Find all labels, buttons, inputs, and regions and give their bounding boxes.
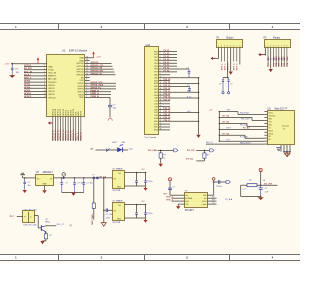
svg-text:GPIO14_MO: GPIO14_MO bbox=[91, 69, 104, 72]
svg-text:P16_IO: P16_IO bbox=[164, 97, 171, 99]
svg-text:SDIO_2: SDIO_2 bbox=[24, 78, 32, 80]
svg-text:1: 1 bbox=[218, 45, 219, 47]
svg-text:KEY_6: KEY_6 bbox=[237, 63, 239, 70]
svg-text:C?: C? bbox=[212, 202, 214, 204]
svg-text:16: 16 bbox=[160, 94, 162, 96]
svg-text:DY_Da: DY_Da bbox=[186, 159, 194, 161]
svg-text:R?_A.A: R?_A.A bbox=[225, 198, 233, 201]
svg-text:12: 12 bbox=[86, 68, 88, 70]
svg-text:P23_IO: P23_IO bbox=[164, 117, 171, 119]
svg-text:A?: A? bbox=[212, 196, 214, 199]
svg-text:15: 15 bbox=[160, 91, 162, 93]
svg-text:U? 78M05: U? 78M05 bbox=[113, 201, 124, 203]
svg-text:8: 8 bbox=[44, 84, 45, 86]
svg-text:5: 5 bbox=[276, 45, 277, 47]
svg-text:11: 11 bbox=[44, 93, 46, 95]
svg-text:GPIO12: GPIO12 bbox=[76, 69, 84, 71]
svg-text:20: 20 bbox=[160, 105, 162, 107]
svg-text:+5V?: +5V? bbox=[106, 217, 110, 219]
svg-text:RxTx4: RxTx4 bbox=[268, 133, 273, 135]
svg-text:GPIO4: GPIO4 bbox=[24, 86, 31, 89]
svg-text:7: 7 bbox=[236, 45, 237, 47]
svg-text:6: 6 bbox=[86, 85, 87, 87]
svg-text:SCL_P?: SCL_P? bbox=[57, 224, 66, 226]
svg-text:GPIO5_SCL: GPIO5_SCL bbox=[91, 82, 104, 84]
svg-text:Vin: Vin bbox=[185, 195, 187, 197]
svg-text:27: 27 bbox=[160, 126, 162, 128]
svg-text:IO-RxTx2: IO-RxTx2 bbox=[268, 116, 275, 118]
svg-text:C?: C? bbox=[265, 188, 267, 190]
svg-text:Crt_Counter: Crt_Counter bbox=[145, 136, 157, 139]
svg-text:DC_IN?: DC_IN? bbox=[264, 183, 273, 185]
svg-text:RxTx3: RxTx3 bbox=[268, 130, 273, 132]
svg-text:21: 21 bbox=[160, 108, 162, 110]
svg-text:GPIO4: GPIO4 bbox=[48, 91, 55, 93]
svg-text:P_T2_IN: P_T2_IN bbox=[240, 136, 248, 138]
svg-text:ESP-12 Module: ESP-12 Module bbox=[69, 49, 88, 53]
svg-text:P22_IO: P22_IO bbox=[164, 114, 171, 116]
svg-text:SCLK/IO: SCLK/IO bbox=[48, 82, 57, 84]
svg-text:PWM_R: PWM_R bbox=[91, 90, 100, 92]
svg-text:3: 3 bbox=[44, 68, 45, 70]
svg-text:4: 4 bbox=[227, 45, 228, 47]
svg-text:P14_IO: P14_IO bbox=[164, 90, 171, 93]
svg-text:R?_10k: R?_10k bbox=[223, 134, 231, 136]
svg-text:6: 6 bbox=[278, 45, 279, 47]
svg-text:3: 3 bbox=[86, 93, 87, 95]
svg-text:GPIO13_CK: GPIO13_CK bbox=[91, 65, 104, 67]
svg-text:EN_RST: EN_RST bbox=[24, 68, 33, 70]
svg-text:SCLK_I: SCLK_I bbox=[24, 74, 32, 76]
svg-text:R?D_3: R?D_3 bbox=[167, 199, 174, 201]
svg-text:AMS1117: AMS1117 bbox=[43, 171, 54, 174]
svg-text:2: 2 bbox=[44, 65, 45, 67]
svg-text:TXD0: TXD0 bbox=[48, 69, 54, 71]
svg-text:C?: C? bbox=[66, 183, 68, 185]
svg-text:GPIO13: GPIO13 bbox=[24, 96, 32, 98]
svg-text:GPIO5: GPIO5 bbox=[48, 94, 55, 96]
svg-text:P1_IO: P1_IO bbox=[164, 53, 170, 55]
svg-text:GPIO15: GPIO15 bbox=[76, 63, 84, 65]
svg-text:9: 9 bbox=[86, 76, 87, 78]
svg-text:8: 8 bbox=[239, 45, 240, 47]
svg-text:MOSI_Px: MOSI_Px bbox=[81, 131, 83, 141]
svg-text:P6_IO: P6_IO bbox=[164, 68, 170, 70]
svg-text:1: 1 bbox=[265, 45, 266, 47]
svg-text:LED_PL?_(B): LED_PL?_(B) bbox=[24, 225, 37, 227]
svg-text:Vin: Vin bbox=[113, 178, 116, 180]
svg-text:P17_IO: P17_IO bbox=[164, 100, 171, 102]
svg-text:Vss: Vss bbox=[204, 198, 207, 200]
svg-text:Button: Button bbox=[227, 36, 235, 39]
svg-text:12: 12 bbox=[44, 96, 46, 98]
svg-text:24: 24 bbox=[160, 117, 162, 119]
svg-text:GPIO12_MI: GPIO12_MI bbox=[91, 68, 103, 70]
svg-text:P4_IO: P4_IO bbox=[164, 61, 170, 64]
svg-text:C?: C? bbox=[219, 84, 221, 86]
svg-text:ADC_A0: ADC_A0 bbox=[24, 70, 33, 73]
svg-text:U2A: U2A bbox=[146, 44, 151, 47]
svg-text:GPIO16_W: GPIO16_W bbox=[91, 73, 103, 75]
svg-text:ADC_A0: ADC_A0 bbox=[48, 78, 57, 81]
svg-text:16: 16 bbox=[86, 56, 88, 58]
svg-text:EN/RST: EN/RST bbox=[48, 76, 56, 78]
svg-text:19: 19 bbox=[160, 103, 162, 105]
svg-text:5: 5 bbox=[230, 45, 231, 47]
svg-text:R?_10k: R?_10k bbox=[223, 116, 231, 118]
svg-text:GPIO5: GPIO5 bbox=[78, 83, 85, 85]
svg-text:GPIO0: GPIO0 bbox=[48, 85, 55, 87]
svg-text:KEY_1: KEY_1 bbox=[221, 63, 223, 70]
svg-text:GND: GND bbox=[117, 219, 122, 221]
svg-text:GPIO4_SDA: GPIO4_SDA bbox=[91, 84, 104, 87]
svg-text:GPIO2: GPIO2 bbox=[78, 91, 85, 93]
svg-text:Vin: Vin bbox=[37, 178, 40, 180]
svg-text:7: 7 bbox=[281, 45, 282, 47]
svg-text:PWM_B: PWM_B bbox=[91, 96, 100, 98]
svg-text:GPIO12: GPIO12 bbox=[24, 93, 32, 95]
svg-text:(?): (?) bbox=[70, 225, 73, 227]
svg-text:C5B: C5B bbox=[121, 142, 126, 144]
svg-text:C? 10u: C? 10u bbox=[87, 183, 93, 185]
svg-text:C?: C? bbox=[28, 182, 30, 184]
svg-text:GPIO2: GPIO2 bbox=[24, 84, 31, 86]
svg-text:+5V: +5V bbox=[90, 149, 94, 151]
svg-text:C?: C? bbox=[230, 84, 232, 86]
svg-text:2: 2 bbox=[86, 96, 87, 98]
svg-text:Max-232-??: Max-232-?? bbox=[275, 108, 288, 111]
svg-text:2: 2 bbox=[221, 45, 222, 47]
svg-text:RXD0: RXD0 bbox=[78, 94, 84, 96]
svg-text:PIO_2a?: PIO_2a? bbox=[240, 125, 247, 127]
svg-text:PL?: PL? bbox=[10, 216, 15, 218]
svg-text:DY_DO: DY_DO bbox=[187, 150, 195, 152]
svg-text:P10_IO: P10_IO bbox=[164, 79, 171, 81]
svg-text:P0_IO: P0_IO bbox=[164, 50, 170, 52]
svg-text:25: 25 bbox=[160, 120, 162, 122]
svg-text:P24_IO: P24_IO bbox=[164, 119, 171, 122]
svg-text:8: 8 bbox=[284, 45, 285, 47]
svg-text:P7_IO: P7_IO bbox=[164, 71, 170, 73]
svg-text:SOT-89: SOT-89 bbox=[113, 222, 121, 224]
svg-text:22: 22 bbox=[160, 111, 162, 113]
svg-text:GPIO0: GPIO0 bbox=[24, 81, 31, 83]
svg-text:NC: NC bbox=[81, 77, 84, 79]
svg-text:VSS: VSS bbox=[154, 130, 159, 132]
svg-text:6: 6 bbox=[233, 45, 234, 47]
svg-text:GPIO12: GPIO12 bbox=[48, 97, 56, 99]
svg-text:GND: GND bbox=[48, 66, 53, 68]
svg-text:GPIO14: GPIO14 bbox=[76, 72, 84, 74]
svg-text:GPIO0_FL: GPIO0_FL bbox=[91, 87, 102, 89]
svg-text:9: 9 bbox=[44, 87, 45, 89]
svg-text:P5_IO: P5_IO bbox=[164, 65, 170, 67]
svg-text:TXD0: TXD0 bbox=[79, 97, 85, 99]
svg-text:P15_IO: P15_IO bbox=[164, 94, 171, 96]
svg-text:C?10u: C?10u bbox=[147, 213, 153, 215]
svg-text:14: 14 bbox=[160, 88, 162, 90]
svg-text:Rotary: Rotary bbox=[273, 36, 281, 39]
svg-text:C? 104: C? 104 bbox=[78, 183, 84, 185]
svg-text:RxTx1: RxTx1 bbox=[268, 113, 273, 115]
svg-text:R?_4k7: R?_4k7 bbox=[243, 127, 250, 130]
svg-text:SOT-89: SOT-89 bbox=[113, 190, 121, 192]
svg-text:Wkey_RxD?: Wkey_RxD? bbox=[240, 142, 251, 144]
svg-text:P3_IO: P3_IO bbox=[164, 59, 170, 61]
svg-text:GPIO13: GPIO13 bbox=[76, 66, 84, 68]
svg-text:P20_IO: P20_IO bbox=[164, 108, 171, 110]
svg-text:11: 11 bbox=[86, 71, 88, 73]
svg-text:26: 26 bbox=[160, 123, 162, 125]
svg-text:max-23: max-23 bbox=[282, 126, 290, 128]
svg-text:5: 5 bbox=[44, 75, 45, 77]
svg-text:LED?: LED? bbox=[112, 142, 118, 144]
svg-text:P21_IO: P21_IO bbox=[164, 111, 171, 113]
svg-text:3: 3 bbox=[224, 45, 225, 47]
svg-text:7: 7 bbox=[44, 81, 45, 83]
svg-text:15: 15 bbox=[86, 59, 88, 61]
svg-text:R?D_2: R?D_2 bbox=[167, 197, 174, 199]
svg-text:GND: GND bbox=[117, 187, 122, 189]
svg-text:10: 10 bbox=[86, 73, 88, 75]
svg-text:P31_TxD?: P31_TxD? bbox=[241, 119, 250, 121]
svg-text:U1: U1 bbox=[62, 49, 66, 53]
svg-text:23: 23 bbox=[160, 114, 162, 116]
svg-text:10u: 10u bbox=[28, 185, 31, 187]
svg-text:C?_104: C?_104 bbox=[106, 214, 113, 216]
svg-text:C?: C? bbox=[173, 186, 175, 188]
svg-text:17: 17 bbox=[160, 97, 162, 99]
svg-text:VDD_33: VDD_33 bbox=[48, 73, 57, 75]
svg-text:U? 78M05: U? 78M05 bbox=[113, 169, 124, 171]
svg-text:+3V3: +3V3 bbox=[4, 63, 10, 65]
svg-text:3: 3 bbox=[270, 45, 271, 47]
svg-text:PWM_G: PWM_G bbox=[91, 93, 100, 95]
svg-text:C?104: C?104 bbox=[216, 186, 222, 188]
svg-text:P2_IO: P2_IO bbox=[164, 56, 170, 58]
svg-text:R_2a: R_2a bbox=[187, 96, 191, 98]
svg-text:KEY_2: KEY_2 bbox=[225, 63, 227, 70]
svg-text:Vo: Vo bbox=[50, 178, 52, 180]
svg-text:10: 10 bbox=[44, 90, 46, 92]
svg-text:B?: B? bbox=[212, 199, 214, 201]
svg-text:P30_RxD?: P30_RxD? bbox=[240, 113, 249, 115]
svg-text:+5V: +5V bbox=[141, 201, 145, 203]
svg-text:8: 8 bbox=[86, 79, 87, 81]
svg-text:11: 11 bbox=[160, 79, 162, 81]
svg-text:GPIO0: GPIO0 bbox=[78, 89, 85, 91]
svg-text:x2,4: x2,4 bbox=[187, 111, 190, 113]
svg-text:NC/SDA: NC/SDA bbox=[185, 197, 192, 200]
svg-text:J?: J? bbox=[92, 175, 94, 177]
svg-text:GPIO16: GPIO16 bbox=[76, 74, 84, 76]
svg-text:GPIO2: GPIO2 bbox=[48, 88, 55, 90]
svg-text:VDD: VDD bbox=[154, 127, 159, 129]
svg-text:+5V: +5V bbox=[141, 169, 145, 171]
svg-text:18: 18 bbox=[160, 100, 162, 102]
svg-text:12: 12 bbox=[160, 82, 162, 84]
svg-text:4: 4 bbox=[273, 45, 274, 47]
svg-text:P12_IO: P12_IO bbox=[164, 85, 171, 87]
svg-text:GND_PWR: GND_PWR bbox=[92, 214, 94, 225]
svg-text:GPIO14_Px: GPIO14_Px bbox=[54, 129, 57, 141]
svg-text:4: 4 bbox=[86, 90, 87, 92]
svg-text:4k7?: 4k7? bbox=[187, 91, 191, 93]
svg-text:4: 4 bbox=[44, 71, 45, 73]
svg-text:1k: 1k bbox=[163, 157, 165, 159]
svg-text:P11_IO: P11_IO bbox=[164, 82, 171, 84]
svg-text:13: 13 bbox=[86, 65, 88, 67]
svg-text:GPIO5: GPIO5 bbox=[24, 90, 31, 92]
svg-text:13: 13 bbox=[160, 85, 162, 87]
svg-text:2: 2 bbox=[268, 45, 269, 47]
svg-text:VCC3.3: VCC3.3 bbox=[24, 65, 32, 67]
svg-text:GND: GND bbox=[42, 183, 47, 185]
svg-text:GND: GND bbox=[79, 58, 84, 60]
svg-text:Comm: Comm bbox=[202, 204, 208, 206]
svg-text:Vin: Vin bbox=[113, 210, 116, 212]
svg-text:7: 7 bbox=[86, 82, 87, 84]
svg-text:+5V: +5V bbox=[209, 110, 213, 112]
svg-text:GPIO15: GPIO15 bbox=[91, 62, 100, 64]
svg-text:R?_10k: R?_10k bbox=[223, 122, 231, 124]
svg-text:14: 14 bbox=[86, 62, 88, 64]
svg-text:10: 10 bbox=[160, 76, 162, 78]
svg-text:GPIO4: GPIO4 bbox=[78, 86, 85, 88]
svg-text:VCC: VCC bbox=[79, 80, 84, 82]
svg-text:9: 9 bbox=[286, 45, 287, 47]
svg-text:28: 28 bbox=[160, 129, 162, 131]
svg-text:6: 6 bbox=[44, 78, 45, 80]
svg-text:RX?_IO: RX?_IO bbox=[206, 142, 213, 144]
svg-text:MOSI: MOSI bbox=[81, 110, 83, 115]
svg-text:DO_LED: DO_LED bbox=[148, 150, 157, 152]
svg-text:GND: GND bbox=[79, 60, 84, 62]
svg-text:PIC12F?: PIC12F? bbox=[185, 210, 195, 212]
svg-text:C?10u: C?10u bbox=[147, 181, 153, 183]
svg-text:KEY_5: KEY_5 bbox=[234, 63, 236, 70]
svg-text:P13_IO: P13_IO bbox=[164, 88, 171, 90]
svg-text:5: 5 bbox=[86, 88, 87, 90]
